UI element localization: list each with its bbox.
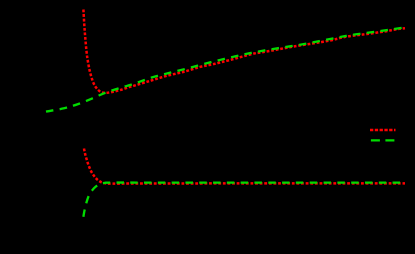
legend green dashed sample xyxy=(371,139,395,141)
green dashed curve, top subplot xyxy=(46,27,405,111)
legend red dotted sample xyxy=(370,129,396,132)
red dotted curve, top subplot xyxy=(83,10,405,93)
red dotted curve, bottom subplot xyxy=(84,149,405,184)
green dashed curve, bottom subplot xyxy=(83,183,405,217)
